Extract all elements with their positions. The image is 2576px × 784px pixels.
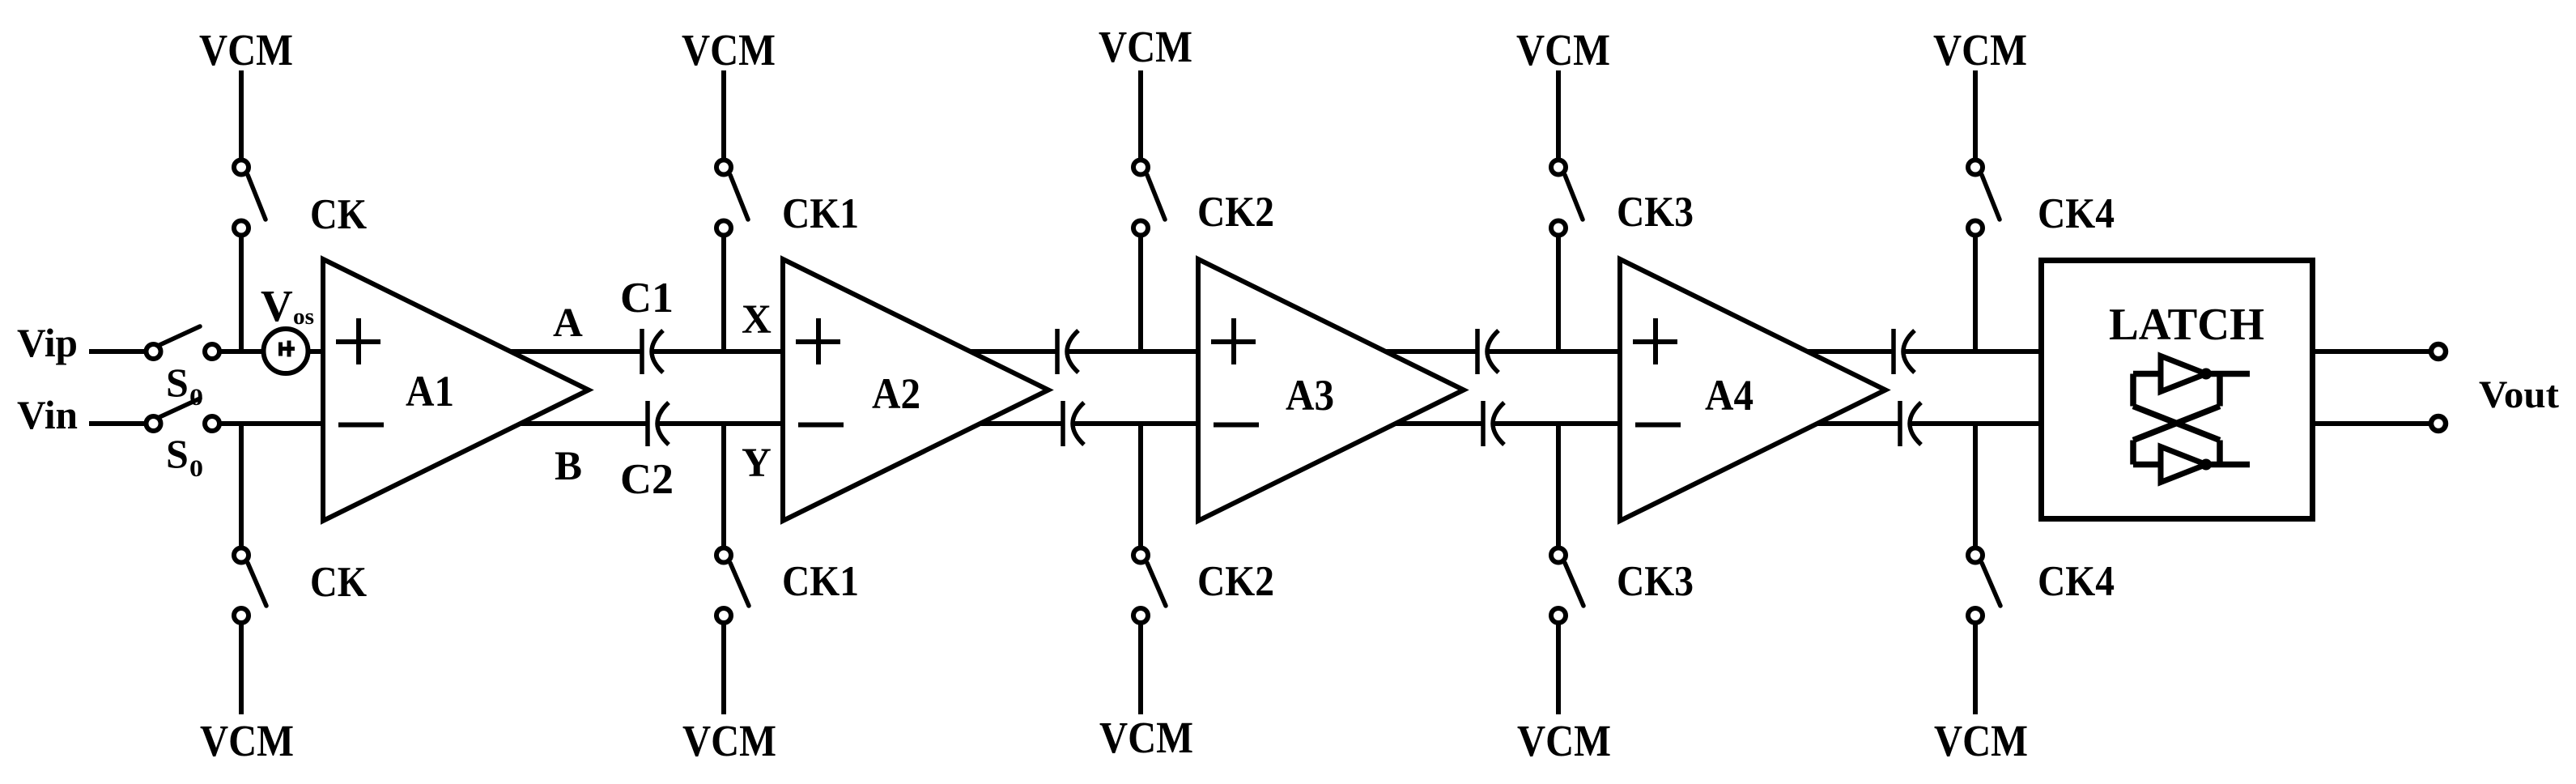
svg-text:A2: A2 — [872, 369, 920, 418]
svg-text:VCM: VCM — [199, 25, 293, 75]
svg-text:CK: CK — [310, 191, 367, 238]
svg-text:VCM: VCM — [1933, 25, 2027, 75]
svg-text:CK1: CK1 — [782, 190, 859, 237]
svg-text:A: A — [553, 300, 583, 346]
svg-text:V: V — [261, 281, 293, 330]
svg-text:LATCH: LATCH — [2109, 300, 2264, 350]
svg-text:CK4: CK4 — [2038, 558, 2115, 605]
svg-text:X: X — [742, 297, 772, 343]
svg-text:CK3: CK3 — [1617, 189, 1694, 236]
svg-text:VCM: VCM — [1516, 25, 1610, 75]
svg-text:0: 0 — [189, 384, 203, 411]
svg-text:C2: C2 — [620, 456, 674, 503]
svg-text:CK1: CK1 — [782, 558, 859, 605]
svg-text:VCM: VCM — [1099, 713, 1193, 762]
svg-text:os: os — [293, 304, 314, 330]
svg-text:S: S — [166, 431, 189, 476]
svg-text:A4: A4 — [1705, 371, 1753, 420]
svg-text:VCM: VCM — [1099, 22, 1192, 71]
svg-text:CK4: CK4 — [2038, 190, 2115, 237]
svg-text:CK3: CK3 — [1617, 558, 1694, 605]
svg-text:VCM: VCM — [1517, 716, 1611, 765]
svg-text:CK2: CK2 — [1197, 558, 1274, 605]
svg-text:A3: A3 — [1286, 371, 1334, 420]
svg-text:Y: Y — [742, 441, 772, 486]
svg-text:VCM: VCM — [682, 25, 776, 75]
svg-text:CK: CK — [310, 559, 367, 606]
svg-text:C1: C1 — [620, 275, 674, 322]
svg-text:VCM: VCM — [682, 716, 776, 765]
svg-text:VCM: VCM — [1934, 716, 2028, 765]
svg-text:A1: A1 — [406, 367, 454, 415]
svg-text:B: B — [555, 444, 582, 489]
svg-text:S: S — [166, 360, 189, 405]
svg-text:Vout: Vout — [2479, 373, 2559, 416]
svg-text:Vin: Vin — [17, 392, 78, 437]
svg-text:0: 0 — [189, 455, 203, 482]
svg-text:Vip: Vip — [17, 320, 78, 365]
svg-text:CK2: CK2 — [1197, 189, 1274, 236]
svg-text:VCM: VCM — [200, 716, 294, 765]
